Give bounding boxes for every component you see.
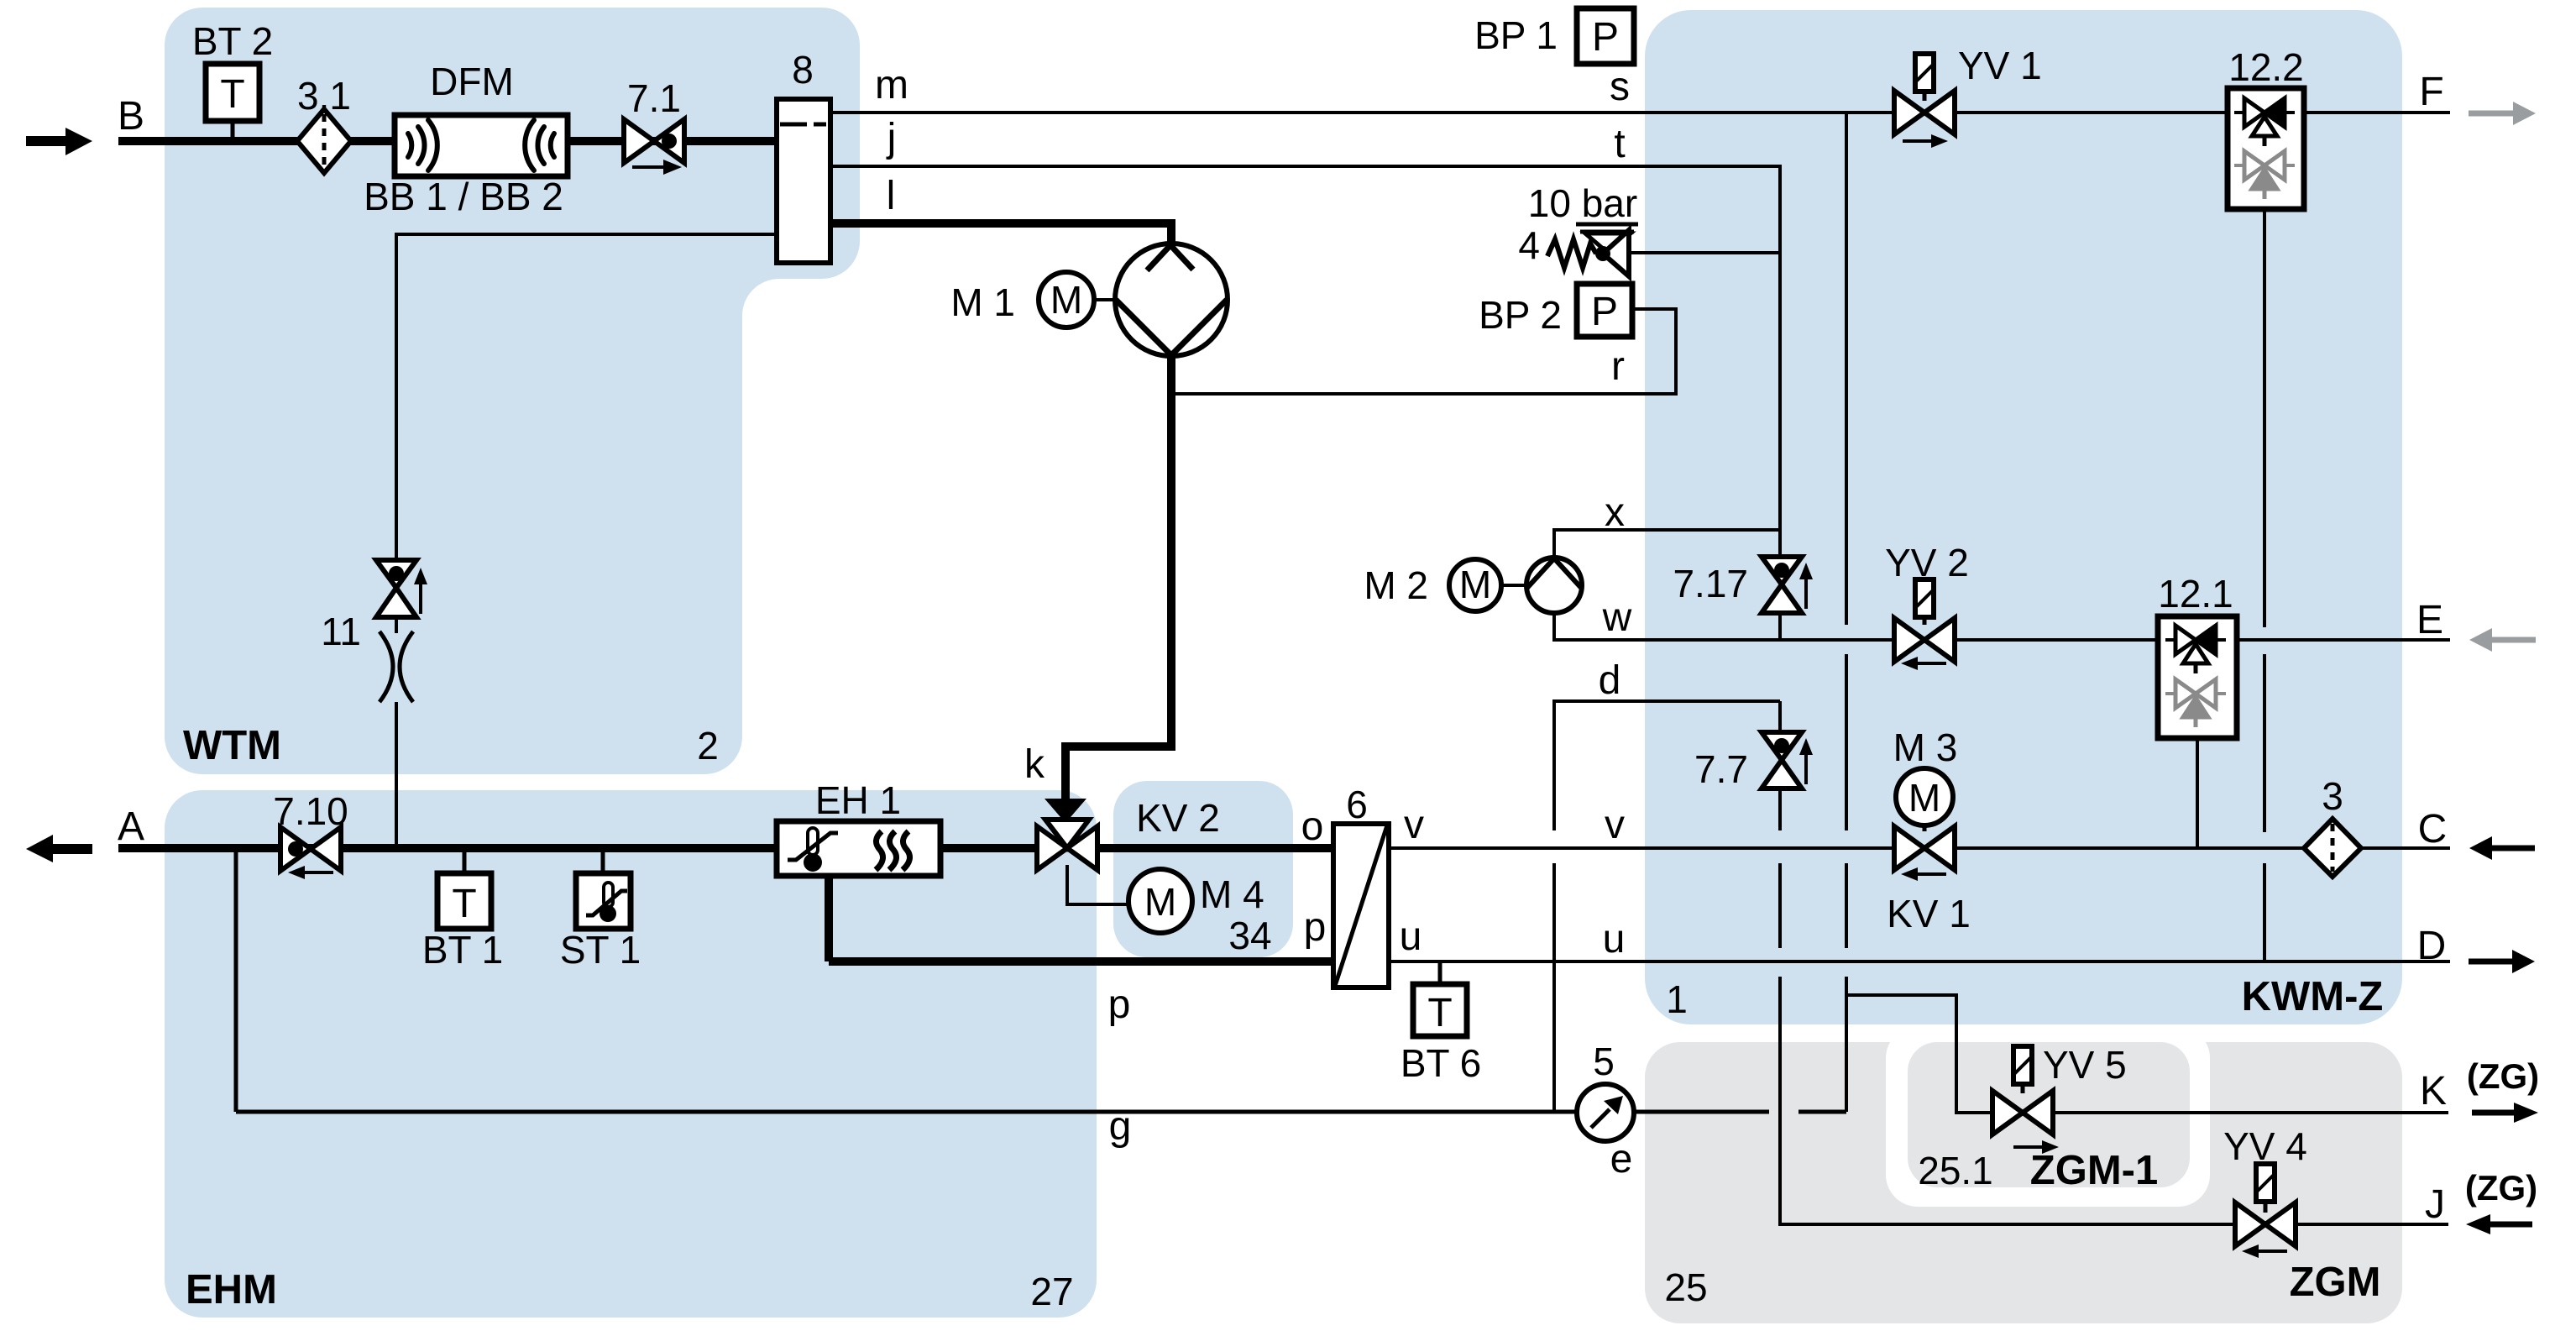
svg-text:1: 1 — [1666, 977, 1688, 1021]
wire 7.17 bottom to w — [1778, 613, 1782, 640]
wire d to 7.7 — [1778, 701, 1782, 732]
port arrow F (gray out) — [2469, 102, 2536, 125]
port arrow A (out) — [26, 835, 92, 862]
svg-text:M 3: M 3 — [1893, 726, 1958, 769]
wire M2 coupling — [1501, 584, 1528, 587]
svg-text:27: 27 — [1030, 1270, 1073, 1313]
svg-text:j: j — [886, 116, 897, 160]
svg-text:v: v — [1605, 803, 1625, 847]
svg-text:ST 1: ST 1 — [560, 928, 641, 972]
wire u line — [1389, 960, 2450, 963]
svg-text:25.1: 25.1 — [1918, 1149, 1993, 1192]
port arrow E (gray in) — [2469, 628, 2536, 652]
svg-text:7.17: 7.17 — [1673, 562, 1748, 605]
sensor ST1 — [576, 873, 631, 929]
svg-text:KV 2: KV 2 — [1136, 796, 1220, 840]
svg-text:BT 1: BT 1 — [422, 928, 503, 972]
svg-text:34: 34 — [1228, 914, 1271, 957]
svg-text:J: J — [2425, 1182, 2445, 1227]
svg-text:t: t — [1614, 122, 1625, 166]
svg-text:25: 25 — [1664, 1265, 1707, 1309]
svg-text:DFM: DFM — [430, 60, 514, 103]
svg-text:5: 5 — [1593, 1040, 1615, 1083]
svg-text:u: u — [1400, 914, 1422, 959]
svg-text:o: o — [1301, 804, 1324, 849]
wire BT1 stem — [463, 849, 467, 875]
svg-text:YV 5: YV 5 — [2043, 1043, 2127, 1087]
relief valve 4 — [1547, 224, 1638, 276]
check module 12.1 — [2158, 616, 2237, 738]
wire M3 stem — [1923, 823, 1927, 831]
svg-text:e: e — [1610, 1137, 1633, 1181]
k arrowhead — [1045, 799, 1086, 823]
svg-text:M: M — [1908, 776, 1940, 820]
svg-text:BP 1: BP 1 — [1474, 13, 1558, 57]
svg-text:YV 2: YV 2 — [1885, 541, 1969, 584]
svg-text:BT 2: BT 2 — [192, 19, 273, 63]
port arrow C (in) — [2469, 836, 2535, 860]
valve KV1 with motor M3 — [1894, 768, 1955, 881]
svg-text:(ZG): (ZG) — [2465, 1168, 2537, 1208]
wire BT2 stem — [231, 121, 235, 141]
motor M4 — [1128, 869, 1192, 933]
svg-text:3.1: 3.1 — [297, 74, 351, 118]
check module 12.2 — [2228, 88, 2304, 209]
sensor BT1 — [437, 873, 491, 929]
valve 7.7 — [1762, 732, 1813, 789]
svg-text:EHM: EHM — [186, 1267, 277, 1312]
wire m-s line — [830, 111, 2450, 114]
svg-text:m: m — [875, 63, 908, 107]
svg-text:M: M — [1144, 880, 1176, 924]
wire w line — [1554, 613, 2450, 640]
svg-text:u: u — [1603, 917, 1626, 961]
valve YV1 — [1894, 54, 1955, 148]
svg-text:T: T — [220, 72, 244, 117]
valve YV4 — [2235, 1164, 2296, 1258]
svg-text:M 4: M 4 — [1200, 872, 1264, 916]
svg-text:BT 6: BT 6 — [1401, 1041, 1481, 1085]
region KV2 (blue) — [1113, 781, 1293, 957]
wire valve4 to t-branch — [1630, 251, 1780, 254]
white channel around ZGM-1 — [1886, 1026, 2210, 1207]
wire s-branch vertical — [1845, 113, 1848, 1112]
valve 7.10 — [280, 827, 341, 879]
wire d line — [1554, 701, 1780, 1112]
wire M1 coupling — [1094, 298, 1117, 301]
svg-text:l: l — [887, 174, 896, 218]
valve YV2 — [1894, 579, 1955, 670]
svg-text:v: v — [1404, 803, 1424, 847]
valve 7.1 — [624, 119, 684, 175]
svg-text:WTM: WTM — [183, 723, 281, 768]
svg-text:d: d — [1599, 658, 1621, 703]
wire j-t line with corner down — [830, 166, 1780, 557]
wire B main (thick) — [118, 137, 777, 145]
svg-text:K: K — [2420, 1069, 2447, 1113]
sensor BP1 — [1577, 8, 1634, 64]
wire l line thick — [830, 223, 1171, 244]
svg-text:s: s — [1610, 65, 1630, 109]
region EHM (blue) — [165, 790, 1097, 1318]
svg-text:ZGM: ZGM — [2290, 1260, 2381, 1305]
svg-text:7.1: 7.1 — [627, 76, 681, 120]
valve 11 — [376, 560, 427, 617]
svg-text:8: 8 — [792, 48, 814, 92]
svg-text:M 1: M 1 — [950, 280, 1015, 324]
svg-text:r: r — [1611, 344, 1625, 389]
svg-text:11: 11 — [321, 610, 361, 653]
filter 3 — [2304, 819, 2361, 877]
svg-text:D: D — [2417, 924, 2447, 968]
flowmeter DFM — [395, 115, 568, 176]
region KWM-Z (blue) — [1645, 10, 2402, 1024]
svg-text:7.10: 7.10 — [273, 789, 348, 833]
svg-text:E: E — [2416, 598, 2443, 642]
wire pump to k (thick) — [1065, 356, 1171, 801]
svg-text:p: p — [1108, 982, 1131, 1027]
wire BT6 stem — [1438, 961, 1442, 984]
valve KV2 (3-way) — [1037, 820, 1097, 870]
region WTM (blue) — [165, 8, 860, 774]
heat exchanger 6 — [1333, 824, 1389, 988]
svg-text:EH 1: EH 1 — [815, 778, 901, 822]
svg-text:KV 1: KV 1 — [1887, 892, 1971, 935]
svg-text:p: p — [1304, 905, 1327, 950]
restrictor under valve 11 — [380, 631, 413, 702]
pump M1 — [1115, 244, 1228, 356]
sensor BT2 — [206, 64, 259, 121]
port arrow D (out) — [2469, 950, 2535, 973]
svg-text:F: F — [2419, 70, 2443, 114]
svg-text:P: P — [1591, 290, 1618, 334]
wire ST1 stem — [601, 849, 605, 875]
svg-text:M: M — [1050, 278, 1082, 322]
svg-text:P: P — [1592, 15, 1619, 60]
wire YV5 branch — [1846, 995, 2448, 1113]
heater EH1 — [777, 821, 940, 876]
sensor BT6 — [1413, 984, 1467, 1036]
region ZGM (gray) — [1645, 1042, 2402, 1323]
wire EH1 tap + p line (thick) — [829, 876, 1333, 961]
wire valve11 branch — [396, 234, 777, 848]
svg-text:B: B — [118, 94, 144, 139]
svg-text:BP 2: BP 2 — [1479, 293, 1562, 337]
svg-text:A: A — [118, 804, 144, 849]
wire A main (thick) — [118, 844, 1333, 852]
svg-text:ZGM-1: ZGM-1 — [2030, 1148, 2158, 1193]
svg-text:4: 4 — [1518, 223, 1540, 267]
svg-text:C: C — [2418, 807, 2448, 851]
svg-text:k: k — [1024, 742, 1045, 787]
wire 12.2 stem — [2263, 209, 2266, 961]
wire g stem from A — [234, 849, 238, 1112]
svg-text:(ZG): (ZG) — [2467, 1056, 2539, 1096]
valve YV5 — [1992, 1046, 2059, 1154]
port arrow J (in) — [2466, 1214, 2532, 1234]
svg-text:12.1: 12.1 — [2158, 572, 2233, 616]
wire v line — [1389, 846, 2450, 850]
pump M1 motor — [1039, 272, 1094, 327]
chamber 8 — [777, 99, 830, 263]
svg-text:g: g — [1109, 1104, 1132, 1149]
svg-text:3: 3 — [2322, 774, 2343, 818]
filter 3.1 — [297, 109, 351, 173]
svg-text:M 2: M 2 — [1364, 563, 1428, 607]
wire 7.7 down to J line — [1780, 789, 2448, 1224]
pump M2 motor — [1449, 559, 1501, 611]
region ZGM-1 (gray) — [1908, 1042, 2190, 1187]
valve 7.17 — [1762, 557, 1813, 613]
svg-text:12.2: 12.2 — [2228, 45, 2304, 89]
svg-text:YV 1: YV 1 — [1958, 44, 2042, 87]
svg-text:6: 6 — [1346, 783, 1368, 826]
wire KV2 to M4 — [1067, 865, 1128, 904]
svg-text:w: w — [1602, 595, 1632, 640]
svg-text:T: T — [452, 882, 476, 926]
svg-text:7.7: 7.7 — [1694, 747, 1748, 791]
svg-text:BB 1 / BB 2: BB 1 / BB 2 — [364, 175, 563, 218]
wire r line BP2 — [1171, 309, 1676, 394]
sensor BP2 — [1577, 284, 1632, 337]
svg-text:T: T — [1427, 991, 1452, 1035]
pump M2 — [1526, 558, 1582, 613]
wire 12.1 stem — [2196, 738, 2199, 848]
wire x line — [1554, 530, 1780, 558]
svg-text:2: 2 — [697, 724, 719, 768]
svg-text:x: x — [1605, 490, 1625, 535]
port arrow B (in) — [26, 128, 92, 155]
gauge 5 — [1577, 1084, 1634, 1141]
svg-text:10 bar: 10 bar — [1528, 181, 1637, 225]
port arrow K (out) — [2472, 1103, 2538, 1123]
svg-text:YV 4: YV 4 — [2223, 1124, 2307, 1168]
svg-text:KWM-Z: KWM-Z — [2242, 974, 2384, 1019]
svg-text:M: M — [1459, 563, 1491, 606]
wire g line — [236, 1110, 1846, 1114]
